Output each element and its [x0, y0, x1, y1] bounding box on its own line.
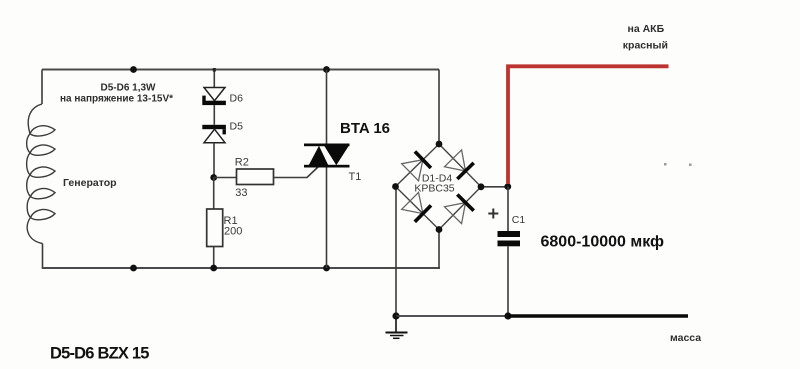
wire junction to R2 — [214, 177, 237, 179]
wire triac top lead — [326, 70, 328, 144]
node dot top wire at triac branch — [323, 66, 330, 73]
node dot bridge top vertex — [436, 141, 443, 148]
wire bridge top lead — [438, 70, 440, 145]
wire triac bottom lead — [326, 168, 328, 269]
node dot bridge bottom vertex — [436, 226, 443, 233]
node dot bridge left vertex — [392, 183, 399, 190]
svg-text:R2: R2 — [235, 157, 249, 169]
bridge diode D2 (top-right) — [445, 150, 474, 179]
wire left vertical lower (generator bottom lead) — [42, 244, 44, 269]
zener diode D5 — [202, 125, 226, 143]
svg-text:C1: C1 — [512, 214, 526, 226]
wire bridge left lead down to ground — [395, 187, 397, 317]
bridge diode D4 (bottom-right) — [445, 195, 474, 224]
svg-text:D6: D6 — [230, 93, 244, 105]
svg-text:200: 200 — [224, 226, 242, 238]
speck artifact 2 — [689, 164, 692, 167]
wire ground junction to massa node — [396, 315, 508, 317]
svg-text:масса: масса — [670, 332, 701, 344]
svg-text:BTA 16: BTA 16 — [340, 120, 390, 137]
wire R1 top lead — [213, 178, 215, 210]
node dot bridge right vertex — [478, 183, 485, 190]
node dot output (bridge + to red wire) — [504, 183, 511, 190]
node dot bottom wire triac — [323, 265, 330, 272]
wire top horizontal (generator top to bridge top) — [42, 69, 439, 71]
junction blob D6 top — [213, 68, 216, 72]
node dot R1/R2 junction — [210, 174, 217, 181]
svg-text:D5: D5 — [230, 121, 244, 133]
svg-text:на АКБ: на АКБ — [628, 23, 665, 35]
wire bridge bottom lead to bottom wire — [438, 230, 440, 269]
ground symbol — [386, 316, 408, 338]
node dot massa — [504, 312, 511, 319]
node dot top wire left — [130, 66, 137, 73]
wire R2 to triac gate — [274, 167, 319, 178]
svg-text:D5-D6 1,3W: D5-D6 1,3W — [100, 83, 156, 94]
wire between D6 and D5 — [213, 105, 215, 125]
svg-text:D5-D6 BZX 15: D5-D6 BZX 15 — [50, 345, 149, 363]
svg-text:красный: красный — [623, 40, 668, 52]
generator coil L1 — [27, 104, 55, 244]
svg-text:6800-10000 мкф: 6800-10000 мкф — [541, 234, 665, 251]
wire R1 bottom lead — [213, 247, 215, 269]
triac T1 — [304, 144, 350, 168]
speck artifact 1 — [664, 163, 667, 166]
wire left vertical upper (generator top lead) — [41, 70, 43, 105]
red wire to battery — [508, 66, 669, 184]
wire bridge right lead to output node — [481, 186, 508, 188]
capacitor C1 — [498, 231, 521, 246]
svg-text:Генератор: Генератор — [63, 177, 117, 189]
svg-text:T1: T1 — [349, 171, 362, 183]
wire output node down to C1 — [507, 187, 509, 231]
zener diode D6 — [202, 88, 226, 106]
node dot ground junction — [392, 312, 399, 319]
node dot bottom wire left — [130, 265, 137, 272]
node dot bottom wire R1 — [210, 265, 217, 272]
resistor R1 — [207, 209, 223, 247]
wire C1 bottom lead — [507, 246, 509, 316]
plus sign for C1 polarity — [488, 209, 498, 219]
wire bottom horizontal — [42, 267, 440, 269]
bridge diode D1 (top-left) — [402, 152, 431, 181]
resistor R2 — [237, 169, 274, 185]
svg-text:33: 33 — [235, 187, 247, 199]
wire D5 to node — [213, 143, 215, 178]
wire massa thick to right — [508, 314, 688, 318]
bridge diode D3 (bottom-left) — [402, 192, 431, 221]
svg-text:KPBC35: KPBC35 — [414, 182, 454, 194]
bridge rectifier D1-D4 frame — [396, 144, 482, 230]
svg-text:на напряжение 13-15V*: на напряжение 13-15V* — [60, 94, 173, 105]
wire D6 top lead — [213, 70, 215, 89]
